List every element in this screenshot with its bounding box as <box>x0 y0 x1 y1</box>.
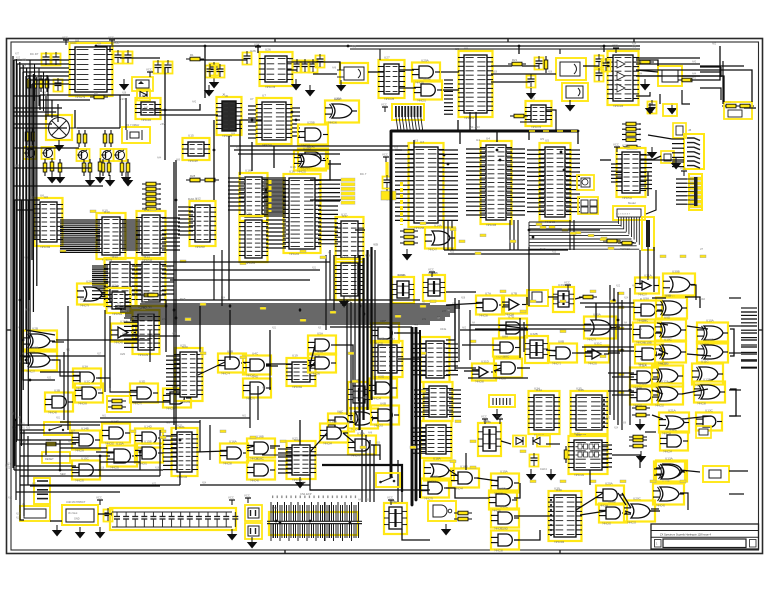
svg-text:74HC429: 74HC429 <box>545 221 556 224</box>
svg-text:N22: N22 <box>616 286 621 288</box>
svg-text:74HC478: 74HC478 <box>265 86 276 89</box>
svg-text:U40 MC7805CT: U40 MC7805CT <box>66 500 86 504</box>
ground <box>47 172 58 184</box>
svg-text:N62: N62 <box>520 328 525 330</box>
gate U6B <box>371 402 399 428</box>
wire <box>16 64 18 440</box>
gate U20A <box>596 482 624 508</box>
gate U14B <box>72 427 100 453</box>
svg-text:N62: N62 <box>462 328 467 330</box>
svg-text:74HC59: 74HC59 <box>75 450 84 453</box>
svg-text:U4C: U4C <box>252 352 259 356</box>
wire <box>13 107 62 109</box>
wire <box>17 439 60 441</box>
IC U28 <box>616 144 646 201</box>
net label <box>600 355 606 358</box>
U4 left fan <box>466 149 485 215</box>
wire <box>25 76 27 330</box>
gate U4D <box>243 375 271 401</box>
net label <box>300 319 306 322</box>
svg-text:U18A: U18A <box>433 457 442 461</box>
ground <box>667 103 678 115</box>
U20 left fan <box>166 356 180 394</box>
ground <box>402 249 413 261</box>
switch SW1 <box>44 422 70 435</box>
svg-text:D0..D7: D0..D7 <box>30 52 39 56</box>
wire <box>34 64 36 101</box>
wire <box>573 220 575 250</box>
svg-text:U3A: U3A <box>82 365 89 369</box>
wire <box>160 323 430 325</box>
svg-text:VCC: VCC <box>382 153 388 157</box>
net label <box>450 228 456 231</box>
svg-text:74HC269: 74HC269 <box>180 401 191 404</box>
svg-text:U9A: U9A <box>643 297 650 301</box>
border tick right <box>759 329 764 331</box>
svg-text:U30B: U30B <box>672 270 680 274</box>
wire <box>52 341 64 343</box>
svg-text:74HC35: 74HC35 <box>75 480 84 483</box>
svg-text:74HC557: 74HC557 <box>195 246 206 249</box>
svg-text:U8C: U8C <box>503 355 510 359</box>
wire <box>517 367 530 369</box>
wire <box>27 436 29 485</box>
diode D3 <box>137 90 150 101</box>
bus U6-U10 <box>60 220 100 250</box>
wire <box>546 350 556 351</box>
wire <box>460 329 528 331</box>
gate U11B <box>652 362 683 390</box>
net label <box>536 223 542 226</box>
flip-flop U33A <box>553 283 574 312</box>
wire <box>109 316 111 388</box>
svg-text:VCC: VCC <box>146 68 152 72</box>
gate U3B <box>45 389 73 415</box>
ground <box>95 172 106 184</box>
wire <box>60 447 107 449</box>
svg-text:CLK: CLK <box>580 409 586 413</box>
wire <box>98 378 137 392</box>
wire <box>159 430 161 476</box>
svg-text:N84: N84 <box>231 134 236 136</box>
wire <box>266 365 278 367</box>
net label <box>562 229 568 232</box>
net label <box>410 446 416 449</box>
wire <box>20 260 44 430</box>
wire <box>741 337 757 339</box>
bus wire <box>390 131 393 478</box>
wire <box>477 478 498 481</box>
wire <box>700 70 752 102</box>
wire <box>16 465 76 467</box>
resistor R48 <box>632 406 650 410</box>
gate U31B <box>111 320 136 345</box>
wire <box>262 454 380 456</box>
svg-text:U7: U7 <box>262 94 266 98</box>
svg-text:R21: R21 <box>512 58 518 62</box>
wire <box>636 75 700 77</box>
wire <box>165 300 167 352</box>
wire <box>13 123 52 125</box>
svg-text:U32B: U32B <box>530 332 538 336</box>
net label <box>608 247 614 250</box>
net label <box>240 356 246 359</box>
wire <box>629 288 631 425</box>
svg-text:N20: N20 <box>26 428 31 430</box>
svg-text:N22: N22 <box>606 418 611 420</box>
wire <box>198 362 225 375</box>
resistor R11 <box>103 130 107 147</box>
net label <box>650 480 656 483</box>
wire <box>462 344 500 346</box>
ground <box>291 79 302 91</box>
IC U9 <box>458 47 493 121</box>
pin header J3 <box>684 134 704 169</box>
svg-text:74HC74: 74HC74 <box>221 373 230 376</box>
svg-text:N17: N17 <box>7 464 12 466</box>
resistor R29 <box>201 178 219 182</box>
rpack dots <box>159 183 161 210</box>
svg-text:U20: U20 <box>182 345 188 349</box>
wire <box>741 367 757 369</box>
wire <box>175 160 177 430</box>
wire <box>52 360 80 376</box>
IC U6 <box>34 194 63 250</box>
wire <box>34 88 36 240</box>
wire <box>27 200 29 426</box>
svg-text:N44: N44 <box>638 74 643 76</box>
wire <box>299 420 301 445</box>
IC U15 <box>182 134 210 164</box>
svg-text:U19B: U19B <box>498 487 506 491</box>
ground <box>227 529 238 541</box>
wire <box>310 433 327 452</box>
wire <box>618 493 626 505</box>
bus wire <box>322 465 402 492</box>
IC U26 <box>259 48 293 90</box>
svg-text:U17: U17 <box>390 337 395 341</box>
bridge rectifier BR1 <box>41 115 77 140</box>
svg-text:N61: N61 <box>102 416 107 418</box>
connector Model <box>613 206 645 220</box>
resistor R41 <box>623 145 641 149</box>
diode D7 <box>533 436 550 447</box>
svg-text:U13s: U13s <box>440 327 447 331</box>
wire <box>379 49 381 60</box>
resistor R13 <box>43 159 47 176</box>
svg-text:U31B: U31B <box>120 320 128 324</box>
svg-text:N80: N80 <box>176 160 181 162</box>
svg-text:N42: N42 <box>144 108 149 110</box>
capacitor C41 <box>104 508 113 522</box>
wire <box>575 297 583 299</box>
svg-text:N68: N68 <box>22 442 27 444</box>
RF modulator <box>658 66 682 86</box>
wire <box>14 199 40 201</box>
wire <box>399 87 416 89</box>
resistor R54 <box>629 435 647 439</box>
wire <box>469 310 471 360</box>
svg-text:U38: U38 <box>391 500 397 504</box>
resistor R <box>622 122 640 126</box>
wire <box>15 420 17 500</box>
svg-text:U20B: U20B <box>608 500 616 504</box>
svg-text:U9D: U9D <box>664 316 671 320</box>
wire <box>354 255 356 425</box>
wire <box>13 60 15 470</box>
svg-text:74HC36: 74HC36 <box>328 122 337 125</box>
svg-text:U36: U36 <box>485 420 491 424</box>
net label <box>560 480 566 483</box>
svg-text:74HC368: 74HC368 <box>486 224 497 227</box>
IC U10 <box>96 209 126 263</box>
svg-text:N21: N21 <box>272 328 277 330</box>
wire <box>164 67 166 160</box>
svg-text:U2A: U2A <box>86 280 93 284</box>
gate U20C <box>624 497 655 525</box>
svg-text:VCC: VCC <box>70 41 77 45</box>
svg-text:U11A: U11A <box>639 364 647 368</box>
resistor R <box>622 127 640 131</box>
wire <box>313 73 337 75</box>
ground <box>336 80 347 92</box>
IC U20 <box>174 344 203 405</box>
wire <box>741 359 757 361</box>
svg-text:N56: N56 <box>493 72 498 74</box>
capacitor C40 <box>530 453 539 467</box>
TP box <box>703 466 729 482</box>
resistor R43 <box>618 241 636 245</box>
svg-text:CAS: CAS <box>80 297 86 301</box>
wire <box>170 279 310 281</box>
gate U9B <box>656 294 687 322</box>
capacitor C1 <box>595 54 604 68</box>
svg-text:N34: N34 <box>632 44 637 46</box>
wire <box>251 142 253 171</box>
gate U10A <box>697 319 728 347</box>
wire <box>729 325 741 327</box>
svg-text:U6: U6 <box>44 195 48 199</box>
svg-text:SER: SER <box>60 472 66 476</box>
wire <box>125 313 450 315</box>
svg-text:U16c: U16c <box>245 212 253 216</box>
svg-text:74HC52: 74HC52 <box>655 405 664 408</box>
svg-text:X2: X2 <box>531 97 535 101</box>
svg-text:74HC79: 74HC79 <box>80 305 89 308</box>
U3 left fan <box>395 150 414 220</box>
wire <box>200 484 310 486</box>
wire <box>589 470 591 485</box>
wire <box>39 95 41 110</box>
highlight wire <box>269 180 272 212</box>
U35 right dots <box>603 399 605 428</box>
svg-text:U25B: U25B <box>307 121 315 125</box>
wire <box>636 70 658 72</box>
power VCC <box>481 415 488 425</box>
svg-text:74HC51: 74HC51 <box>417 100 426 103</box>
net label <box>480 234 486 237</box>
wire <box>506 326 522 328</box>
svg-text:U25A: U25A <box>334 97 341 101</box>
ground <box>339 296 350 308</box>
net label <box>220 430 226 433</box>
wire <box>687 326 708 329</box>
wire <box>179 472 181 485</box>
gate U2C <box>23 346 57 374</box>
svg-text:U24B: U24B <box>430 271 438 275</box>
capacitor C44 <box>595 68 604 82</box>
gate U8B <box>549 340 577 366</box>
net label <box>614 240 620 243</box>
svg-text:U9B: U9B <box>665 294 671 298</box>
wire <box>287 62 340 70</box>
wire <box>680 470 700 472</box>
net label <box>300 250 306 253</box>
svg-text:N21: N21 <box>167 268 172 270</box>
svg-text:U11D: U11D <box>639 382 647 386</box>
power VCC <box>146 68 153 78</box>
wire <box>443 220 445 250</box>
wire <box>213 255 215 300</box>
resistor R <box>622 138 640 142</box>
svg-text:CN1: CN1 <box>272 506 278 510</box>
wire <box>213 120 215 200</box>
svg-text:CLK4: CLK4 <box>540 467 547 471</box>
gate U11C <box>692 360 723 388</box>
gate U17A <box>348 432 376 458</box>
resistor R7 <box>25 128 29 145</box>
wire <box>257 386 259 420</box>
wire <box>455 367 476 369</box>
U3 right fan <box>439 150 458 220</box>
wire <box>365 435 367 502</box>
net label <box>60 250 66 253</box>
svg-text:N81: N81 <box>29 66 34 68</box>
wire <box>526 297 528 305</box>
wire <box>475 328 632 330</box>
bus wire <box>419 330 421 498</box>
audio jack J5 <box>337 63 368 83</box>
svg-text:74HC279: 74HC279 <box>75 96 86 99</box>
jack J13 <box>562 83 588 101</box>
net label <box>250 436 256 439</box>
wire <box>209 425 211 460</box>
capacitor C38 <box>54 78 63 92</box>
IC U3 <box>408 139 444 231</box>
resistor R30 <box>50 158 54 175</box>
wire <box>722 61 724 104</box>
resistor R <box>142 182 160 186</box>
wire <box>229 310 231 360</box>
ground <box>95 527 106 539</box>
wire <box>741 339 757 341</box>
resistor R1 <box>186 53 204 61</box>
U11 right fan <box>162 218 180 250</box>
wire <box>20 443 76 445</box>
wire <box>19 62 21 416</box>
wire <box>582 346 634 348</box>
gate U18A <box>424 457 454 484</box>
wire <box>155 114 218 116</box>
bus wire <box>391 130 578 133</box>
resistor R15 <box>82 159 86 176</box>
svg-text:N96: N96 <box>622 423 627 425</box>
power VCC <box>381 103 388 113</box>
wire <box>273 146 275 168</box>
wire <box>23 160 55 380</box>
svg-text:N41: N41 <box>352 47 357 49</box>
gate U19A <box>491 470 519 496</box>
svg-text:VCC: VCC <box>96 496 102 500</box>
wire <box>399 69 414 71</box>
svg-text:N62: N62 <box>692 78 697 80</box>
svg-text:N24: N24 <box>614 428 619 430</box>
svg-text:74HC65: 74HC65 <box>602 523 611 526</box>
wire <box>373 445 375 502</box>
power VCC <box>496 415 503 425</box>
svg-text:N89: N89 <box>15 166 20 168</box>
resistor R42 <box>603 239 621 243</box>
gate U14A <box>425 224 455 252</box>
svg-text:B: B <box>640 357 642 361</box>
net label stack A <box>341 178 355 204</box>
wire <box>13 167 91 169</box>
wire <box>647 247 649 280</box>
IC U5 <box>539 139 571 225</box>
wire <box>310 160 330 180</box>
svg-text:74HC63: 74HC63 <box>374 425 383 428</box>
svg-text:74HC84: 74HC84 <box>323 443 332 446</box>
net label <box>520 310 526 313</box>
svg-text:N79: N79 <box>22 60 27 62</box>
svg-text:74HC366: 74HC366 <box>554 541 565 544</box>
wire <box>682 389 708 394</box>
U23 left fan <box>124 318 138 347</box>
svg-text:74HC373: 74HC373 <box>531 126 542 129</box>
wire <box>741 344 757 346</box>
wire <box>494 368 501 371</box>
svg-text:U12A: U12A <box>661 380 670 384</box>
resistor R49 <box>632 413 650 417</box>
wire <box>559 49 561 54</box>
svg-text:U19D: U19D <box>500 527 509 531</box>
wire <box>173 162 175 425</box>
wire <box>529 229 600 231</box>
IC J6 <box>216 93 242 139</box>
wire <box>729 297 741 299</box>
wire <box>577 352 592 354</box>
resistor R32 <box>140 289 158 297</box>
svg-text:74HC58: 74HC58 <box>223 463 232 466</box>
svg-text:U16: U16 <box>289 170 295 174</box>
wire <box>104 310 106 392</box>
ground <box>640 79 651 91</box>
IC x426c <box>420 421 452 458</box>
resistor R <box>142 202 160 206</box>
svg-text:N72: N72 <box>152 484 157 486</box>
U16b left fan <box>228 178 244 210</box>
wire <box>374 250 376 395</box>
gate U18C <box>421 475 449 501</box>
U16 right fan <box>318 180 340 201</box>
svg-text:U17b: U17b <box>341 255 349 259</box>
wire <box>616 326 620 328</box>
border tick top 1 <box>274 39 276 43</box>
wire <box>13 111 56 113</box>
IC U13 <box>104 254 136 310</box>
svg-text:U16D: U16D <box>329 420 338 424</box>
bus wire <box>411 327 414 505</box>
